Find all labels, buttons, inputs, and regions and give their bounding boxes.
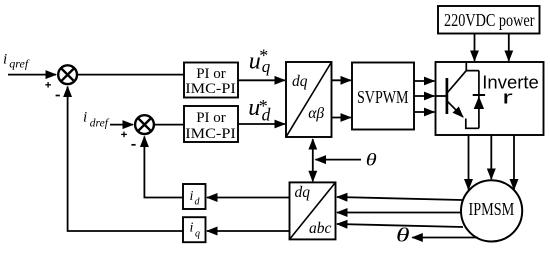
plus sign at S1 (45, 82, 51, 88)
svg-text:θ: θ (366, 150, 377, 170)
motor IPMSM (461, 180, 522, 241)
transform block dq/alphabeta (286, 62, 332, 137)
svg-text:IPMSM: IPMSM (469, 199, 515, 219)
node i_dref label (83, 110, 110, 130)
wire id feedback to S2 (144, 137, 183, 198)
wire PI1 to dq/ab transform (238, 79, 285, 81)
wire S1 to PI1 (78, 74, 184, 76)
wire inverter to IPMSM phase b (490, 135, 492, 179)
wire i_qref to summing junction S1 (8, 74, 56, 76)
wire SVPWM to inverter 1 (414, 80, 434, 82)
block iq (183, 217, 206, 242)
summing junction S1 (58, 65, 77, 84)
wire IPMSM to dq/abc current a (337, 197, 462, 200)
block 220VDC power (438, 6, 540, 34)
svg-text:dref: dref (90, 117, 110, 129)
wire theta double arrow between transforms (312, 139, 314, 181)
wire dq/ab to SVPWM upper (332, 79, 351, 81)
svg-text:i: i (3, 52, 7, 68)
minus sign at S1 (56, 95, 60, 97)
controller block PI2 (184, 106, 238, 142)
plus sign at S2 (121, 132, 127, 138)
svg-text:dq: dq (295, 184, 311, 201)
transistor Q1 gate wire (436, 95, 447, 97)
svg-text:PI or: PI or (196, 110, 226, 126)
transistor Q1 emitter with arrow (448, 102, 479, 129)
transistor Q1 bar (446, 78, 449, 114)
svg-text:*: * (259, 46, 268, 66)
wire theta from IPMSM (412, 237, 478, 239)
label u_d* (248, 95, 270, 125)
wire dq/abc to iq block (207, 230, 290, 232)
wire IPMSM to dq/abc current b (337, 212, 461, 214)
diode D1 (473, 71, 485, 129)
wire dq/abc to id block (207, 197, 290, 199)
minus sign at S2 (131, 144, 135, 146)
label u_q* (249, 46, 271, 77)
svg-text:*: * (259, 96, 268, 116)
block inverter box (436, 62, 544, 135)
svg-text:αβ: αβ (308, 105, 324, 122)
svg-text:d: d (195, 197, 201, 208)
svg-text:r: r (502, 88, 513, 108)
svg-text:SVPWM: SVPWM (357, 87, 409, 107)
svg-text:PI or: PI or (196, 66, 226, 82)
transform block dq/abc (290, 182, 336, 239)
wire S2 to PI2 (155, 124, 185, 126)
svg-text:IMC-PI: IMC-PI (185, 81, 236, 97)
svg-text:i: i (190, 189, 194, 204)
wire 220VDC to inverter left (474, 34, 476, 61)
wire inverter to IPMSM phase a (468, 135, 470, 190)
wire iq feedback to S1 (68, 87, 183, 231)
wire SVPWM to inverter 3 (414, 111, 434, 113)
svg-text:dq: dq (292, 73, 308, 90)
svg-text:i: i (83, 110, 87, 126)
wire PI2 to dq/ab transform (238, 123, 285, 125)
controller block PI1 (184, 63, 238, 98)
wire 220VDC to inverter right (508, 34, 510, 61)
wire i_dref to summing junction S2 (110, 124, 133, 126)
wire dq/ab to SVPWM lower (332, 117, 351, 119)
svg-text:qref: qref (9, 57, 30, 71)
svg-text:q: q (195, 229, 200, 240)
wire inverter to IPMSM phase c (513, 135, 515, 190)
svg-text:i: i (190, 221, 194, 236)
wire SVPWM to inverter 2 (414, 95, 434, 97)
svg-text:IMC-PI: IMC-PI (185, 126, 236, 142)
svg-text:θ: θ (396, 225, 410, 247)
block id (183, 184, 206, 209)
svg-text:abc: abc (309, 220, 332, 237)
wire IPMSM to dq/abc current c (337, 224, 463, 227)
block SVPWM (352, 63, 414, 130)
wire theta into double arrow (316, 159, 362, 161)
svg-text:220VDC power: 220VDC power (444, 10, 535, 30)
node i_qref label (3, 52, 30, 71)
transistor Q1 collector (448, 62, 479, 92)
summing junction S2 (135, 115, 154, 134)
label Inverter (482, 72, 539, 108)
